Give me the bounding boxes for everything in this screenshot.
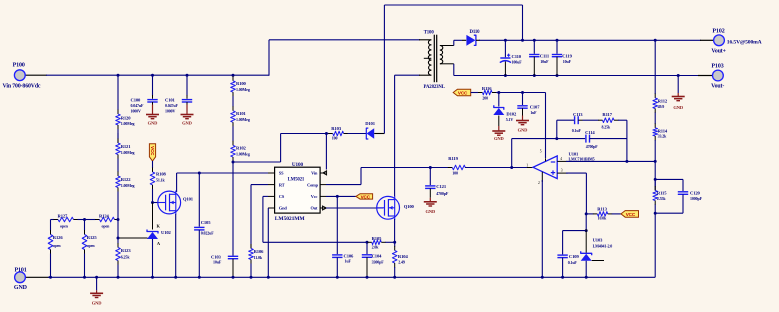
resistor R108	[150, 161, 155, 203]
label C109	[568, 254, 580, 265]
svg-text:R127: R127	[58, 214, 69, 219]
svg-text:0.022uF: 0.022uF	[201, 230, 215, 235]
net flag VCC at U100	[356, 194, 373, 200]
svg-text:1.00Meg: 1.00Meg	[121, 150, 135, 155]
svg-text:R123: R123	[121, 248, 132, 253]
junction rail-C111	[533, 39, 536, 42]
resistor R123	[116, 220, 121, 278]
svg-text:1.00Meg: 1.00Meg	[236, 117, 250, 122]
svg-text:Out: Out	[310, 206, 317, 211]
capacitor C119	[552, 40, 562, 75]
pin Vin	[311, 171, 326, 176]
shunt regulator U102	[147, 230, 158, 240]
label C104	[372, 254, 385, 265]
pin number 3	[561, 169, 563, 173]
label T100	[424, 30, 435, 35]
label C120	[690, 191, 703, 202]
junction rail-C110	[504, 39, 507, 42]
svg-text:RT: RT	[279, 182, 285, 187]
resistor R105	[367, 240, 395, 245]
svg-text:16.5V@500mA: 16.5V@500mA	[727, 39, 762, 45]
svg-text:R108: R108	[156, 172, 167, 177]
svg-text:C119: C119	[562, 54, 572, 59]
svg-text:Vin 700-860Vdc: Vin 700-860Vdc	[3, 83, 41, 89]
pin Comp	[307, 182, 326, 187]
svg-text:C113: C113	[573, 112, 583, 117]
junction ref-R123	[117, 237, 120, 240]
capacitor C109	[557, 255, 567, 277]
svg-text:open: open	[60, 223, 69, 228]
svg-text:GND: GND	[92, 301, 103, 306]
wire flag to R116	[471, 92, 478, 94]
label R120	[121, 115, 135, 126]
capacitor C114	[586, 135, 627, 143]
wire Q100 drain to primary	[395, 75, 432, 196]
transistor Q100	[377, 196, 400, 220]
label C113	[572, 112, 583, 133]
resistor R101	[231, 100, 236, 132]
junction out-C121	[429, 166, 432, 169]
ground GND at D102	[492, 126, 505, 141]
wire secondary bottom to Vout- rail	[453, 64, 455, 76]
junction plus-R113	[585, 212, 588, 215]
capacitor C100	[147, 75, 157, 104]
svg-text:GND: GND	[148, 121, 159, 126]
ground GND at C107	[516, 116, 529, 133]
wire inverting input	[566, 160, 655, 162]
pin number 1	[526, 163, 528, 167]
wire R122 to node	[117, 198, 119, 220]
junction bus-C101	[186, 74, 189, 77]
label R119	[448, 156, 458, 175]
resistor R122	[116, 165, 121, 198]
svg-text:C104: C104	[372, 254, 383, 259]
svg-text:Comp: Comp	[307, 182, 318, 187]
junction bus-C100	[151, 74, 154, 77]
wire non-inverting input	[566, 173, 586, 214]
transistor Q101	[158, 191, 181, 215]
resistor R124	[85, 217, 119, 222]
ground GND at C121	[424, 198, 437, 214]
label P102	[711, 29, 761, 55]
label R123	[121, 248, 132, 259]
label LM5021MM	[275, 216, 306, 222]
resistor R116	[478, 90, 499, 95]
pin SS	[268, 171, 284, 176]
junction chain tap	[232, 161, 235, 164]
svg-text:0.047uF: 0.047uF	[131, 103, 145, 108]
junction comp-C113	[555, 137, 558, 140]
junction bus-V-	[541, 276, 544, 279]
svg-text:P103: P103	[711, 64, 723, 70]
wire R114 to R115	[654, 161, 656, 190]
wire RT to R106	[251, 185, 268, 248]
wire tap to D101 line	[233, 134, 327, 163]
svg-text:R125: R125	[87, 235, 98, 240]
svg-text:10uF: 10uF	[540, 59, 549, 64]
svg-text:GND: GND	[182, 121, 193, 126]
resistor R114	[653, 114, 658, 161]
wire Vin bus from P100	[25, 74, 269, 76]
label U100	[292, 162, 304, 168]
svg-text:1.00Meg: 1.00Meg	[236, 87, 250, 92]
wire R120-R121	[117, 133, 119, 143]
label C119	[562, 54, 572, 65]
svg-text:U102: U102	[161, 230, 172, 235]
junction bus-GND	[95, 276, 98, 279]
wire clamp top loop	[384, 5, 522, 134]
label R102	[236, 146, 250, 157]
port P103	[713, 70, 724, 81]
svg-text:C101: C101	[165, 97, 176, 102]
svg-text:open: open	[87, 243, 96, 248]
wire gate node to U102	[152, 203, 154, 230]
resistor R125	[82, 220, 87, 278]
label U102	[161, 230, 172, 235]
svg-text:0.047uF: 0.047uF	[165, 103, 179, 108]
junction comp-minus	[625, 160, 628, 163]
svg-text:2.55k: 2.55k	[657, 196, 667, 201]
label Q101	[183, 196, 194, 201]
label R125	[87, 235, 98, 248]
label R104	[398, 254, 409, 264]
capacitor C104	[362, 242, 372, 277]
svg-text:1000pF: 1000pF	[690, 196, 703, 201]
capacitor C103	[228, 256, 238, 277]
svg-text:R115: R115	[657, 191, 667, 196]
junction vrail-C119	[556, 74, 559, 77]
wire bus riser to transformer primary top	[269, 40, 431, 76]
junction bus-U103	[585, 276, 588, 279]
junction bus-R106	[250, 276, 253, 279]
svg-text:C110: C110	[512, 54, 522, 59]
resistor R121	[116, 133, 121, 165]
shunt reference U103	[581, 229, 604, 261]
svg-text:0.1uF: 0.1uF	[568, 260, 578, 265]
capacitor C105	[194, 173, 204, 277]
label R114	[658, 128, 668, 138]
svg-text:C111: C111	[540, 54, 550, 59]
svg-text:1000V: 1000V	[131, 109, 142, 114]
resistor R106	[249, 244, 254, 277]
svg-text:100: 100	[452, 171, 458, 176]
pin number 2	[538, 181, 540, 185]
wire C113 branch	[557, 120, 574, 138]
wire VCC to op-amp V+	[545, 93, 547, 159]
label R127	[58, 214, 69, 229]
op-amp U101	[533, 156, 568, 182]
junction chain-minus	[654, 160, 657, 163]
junction vrail-C110	[504, 74, 507, 77]
label Q100	[404, 204, 415, 209]
svg-text:GND: GND	[518, 128, 529, 133]
svg-text:8.25k: 8.25k	[602, 125, 612, 130]
wire Out to Q100 gate	[326, 207, 383, 209]
svg-text:3300pF: 3300pF	[372, 259, 385, 264]
junction bus-R120	[117, 74, 120, 77]
svg-text:P102: P102	[712, 29, 724, 35]
svg-text:5.1V: 5.1V	[506, 117, 514, 122]
svg-text:Vcc: Vcc	[311, 194, 318, 199]
wire U103 anode to bus	[585, 261, 587, 278]
svg-text:R106: R106	[254, 249, 265, 254]
junction CS-C104	[366, 241, 369, 244]
wire U102 anode to bus	[152, 239, 154, 277]
svg-text:LM4041-2.0: LM4041-2.0	[593, 244, 613, 249]
capacitor C120	[655, 179, 688, 213]
svg-text:1uF: 1uF	[530, 110, 537, 115]
svg-text:49.9: 49.9	[658, 104, 665, 109]
junction VCC-C107	[521, 91, 524, 94]
svg-text:VCC: VCC	[361, 195, 371, 200]
junction bus-C103	[232, 276, 235, 279]
label C110	[512, 54, 523, 65]
wire Vout+ rail	[479, 39, 714, 41]
label R106	[254, 249, 265, 260]
junction source-R105	[393, 241, 396, 244]
label C121	[436, 184, 449, 196]
junction rail-C119	[556, 39, 559, 42]
svg-text:1.00Meg: 1.00Meg	[236, 151, 250, 156]
label R101	[236, 111, 250, 122]
junction vrail-C111	[533, 74, 536, 77]
wire Vout- rail	[454, 75, 713, 77]
label LM5021 inside	[288, 178, 305, 183]
capacitor C101	[182, 75, 192, 104]
junction chain-C120 top	[654, 178, 657, 181]
label U103	[593, 238, 613, 249]
transformer T100 core	[434, 35, 436, 82]
svg-text:R117: R117	[602, 112, 612, 117]
junction bus-C104	[366, 276, 369, 279]
wire comp to inverting input	[626, 120, 628, 161]
label C100	[131, 97, 145, 113]
pin Gnd	[268, 206, 287, 211]
svg-text:D110: D110	[470, 30, 481, 35]
label C103	[211, 254, 222, 264]
junction bus-R100	[232, 74, 235, 77]
svg-text:P101: P101	[15, 268, 27, 274]
wire Q101 source to bus	[175, 214, 177, 277]
svg-text:Gnd: Gnd	[279, 206, 287, 211]
port P102	[714, 35, 725, 46]
wire secondary top to D110	[454, 40, 462, 45]
svg-text:Q101: Q101	[183, 196, 194, 201]
label R100	[236, 81, 250, 92]
pin CS	[268, 194, 285, 199]
resistor R126	[48, 220, 53, 278]
resistor R120	[116, 75, 121, 133]
label C105	[201, 220, 215, 235]
svg-text:P100: P100	[13, 63, 25, 69]
junction row-R125	[83, 218, 86, 221]
wire Gnd pin to bus	[267, 208, 269, 277]
svg-text:R101: R101	[236, 111, 247, 116]
net flag VCC at R116	[453, 89, 471, 96]
svg-text:U103: U103	[593, 238, 604, 243]
port P101	[15, 272, 26, 283]
svg-text:6.25k: 6.25k	[121, 254, 131, 259]
junction chain-C120 bot	[654, 212, 657, 215]
junction bus-C105	[198, 276, 201, 279]
ground GND output	[672, 76, 685, 111]
resistor R102	[231, 132, 236, 162]
svg-text:CS: CS	[279, 194, 285, 199]
junction bus-U102	[151, 276, 154, 279]
label R116	[482, 86, 492, 101]
wire Q100 source	[394, 219, 396, 242]
diode D110	[462, 35, 480, 46]
resistor R117	[583, 118, 627, 123]
label C106	[344, 254, 355, 264]
label R115	[657, 191, 667, 202]
wire Vin pin riser	[325, 134, 327, 170]
junction bus-GndPin	[267, 276, 270, 279]
junction Vcc-C106	[336, 195, 339, 198]
wire open-resistor row	[51, 219, 119, 221]
wire R115 to bus	[654, 213, 656, 277]
svg-text:D102: D102	[506, 112, 517, 117]
capacitor C121	[425, 168, 435, 198]
junction vrail-GND	[677, 74, 680, 77]
junction SS-C105	[198, 172, 201, 175]
junction bus-R126	[49, 276, 52, 279]
svg-text:R116: R116	[482, 86, 492, 91]
wire VCC node	[499, 92, 546, 94]
ground GND at C101	[181, 105, 194, 126]
svg-text:10uF: 10uF	[213, 259, 222, 264]
wire op-amp V- to bus	[541, 180, 543, 277]
svg-text:C105: C105	[201, 220, 212, 225]
junction bus-C109	[561, 276, 564, 279]
svg-text:2.0k: 2.0k	[372, 245, 380, 250]
wire comp riser	[512, 139, 586, 168]
svg-text:1uF: 1uF	[345, 259, 352, 264]
svg-text:10.0k: 10.0k	[598, 216, 608, 221]
wire gate stub	[153, 202, 159, 204]
svg-text:U101: U101	[569, 151, 580, 156]
svg-text:R126: R126	[53, 235, 64, 240]
svg-text:T100: T100	[424, 30, 435, 35]
svg-text:R105: R105	[372, 236, 383, 241]
resistor R119	[428, 165, 512, 170]
port P100	[14, 70, 25, 81]
junction bus-R123	[117, 276, 120, 279]
svg-text:R121: R121	[121, 144, 132, 149]
svg-text:LM5021MM: LM5021MM	[275, 216, 306, 222]
resistor R112	[653, 40, 658, 114]
svg-text:51.1k: 51.1k	[156, 178, 166, 183]
svg-text:C114: C114	[585, 130, 595, 135]
junction Vin-pin riser	[325, 132, 328, 135]
svg-text:1.00Meg: 1.00Meg	[121, 121, 135, 126]
svg-text:GND: GND	[673, 105, 684, 110]
resistor R115	[653, 179, 658, 213]
label P103	[711, 64, 724, 90]
label D110	[470, 30, 481, 35]
junction rail-R112	[654, 39, 657, 42]
no-connect marker Vin pin	[323, 171, 327, 175]
net flag VCC at R113	[621, 211, 639, 218]
label P101	[14, 268, 28, 291]
svg-text:C100: C100	[131, 97, 142, 102]
svg-text:open: open	[53, 243, 62, 248]
op-ic U100 LM5021 box	[275, 167, 321, 213]
label U102 A	[157, 241, 161, 246]
svg-text:C121: C121	[436, 184, 447, 189]
svg-text:4700pF: 4700pF	[436, 191, 449, 196]
svg-text:1000V: 1000V	[165, 109, 176, 114]
ground GND primary	[90, 277, 103, 305]
svg-text:100uF: 100uF	[512, 60, 523, 65]
wire R113 node down	[585, 214, 587, 229]
label D102	[506, 112, 517, 122]
svg-text:R120: R120	[121, 115, 132, 120]
junction out-comp	[510, 166, 513, 169]
junction U103-C109	[585, 229, 588, 232]
svg-text:LM5021: LM5021	[288, 178, 305, 183]
junction rail-clamp	[521, 39, 524, 42]
label U102 K	[157, 224, 161, 229]
svg-text:33.2k: 33.2k	[658, 134, 668, 139]
svg-text:R122: R122	[121, 177, 132, 182]
svg-text:VCC: VCC	[458, 91, 468, 96]
label R105	[372, 236, 383, 250]
label D101	[365, 121, 376, 126]
svg-text:10uF: 10uF	[563, 59, 572, 64]
svg-text:4700pF: 4700pF	[586, 144, 599, 149]
label R126	[53, 235, 64, 248]
svg-text:100: 100	[332, 135, 338, 140]
svg-text:200: 200	[482, 96, 488, 101]
svg-text:Vin: Vin	[311, 171, 318, 176]
label R103	[331, 126, 342, 140]
svg-text:R113: R113	[597, 207, 607, 212]
capacitor C110 electrolytic	[500, 40, 511, 75]
label C107	[530, 105, 541, 115]
resistor R104	[392, 242, 397, 277]
svg-text:U100: U100	[292, 162, 304, 168]
label C114	[585, 130, 598, 149]
transformer T100 primary winding	[424, 40, 432, 75]
label R113	[597, 207, 607, 221]
label C111	[540, 54, 550, 65]
junction bus-R104	[393, 276, 396, 279]
ground GND at C100	[146, 105, 159, 126]
capacitor C113	[575, 116, 583, 124]
svg-text:C120: C120	[690, 191, 701, 196]
wire out to op-amp	[465, 167, 533, 169]
capacitor C111	[529, 40, 539, 75]
label R117	[602, 112, 613, 130]
pin number 5	[540, 149, 542, 153]
svg-text:Q100: Q100	[404, 204, 415, 209]
wire primary ground bus	[25, 276, 655, 278]
svg-text:R103: R103	[331, 126, 342, 131]
svg-text:C107: C107	[530, 105, 541, 110]
wire CS to current sense	[263, 196, 368, 242]
zener D102	[493, 93, 504, 127]
svg-text:GND: GND	[14, 285, 28, 291]
label C101	[165, 97, 179, 113]
svg-text:C109: C109	[569, 254, 580, 259]
svg-text:Vout+: Vout+	[711, 49, 725, 55]
svg-text:11.0k: 11.0k	[254, 255, 263, 260]
svg-text:VCC: VCC	[150, 146, 155, 156]
transformer T100 secondary winding	[440, 46, 454, 64]
pin number 4	[560, 157, 562, 161]
label P100	[3, 63, 41, 90]
